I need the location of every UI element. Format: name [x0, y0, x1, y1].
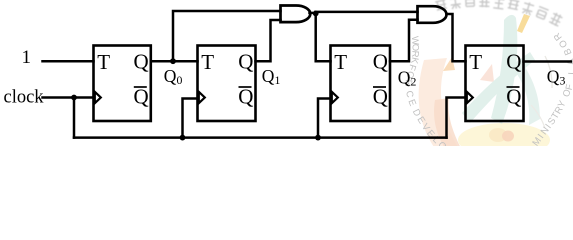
junction: node Q0 [170, 58, 176, 64]
svg-text:T: T [334, 50, 347, 74]
svg-text:L: L [567, 69, 573, 75]
svg-text:Q3: Q3 [547, 67, 566, 88]
svg-text:Q: Q [134, 84, 149, 108]
wire: G1 output down to U3 T input [316, 14, 331, 62]
wire: U1 Q (node Q0) to U2 T input [151, 60, 198, 63]
svg-text:clock: clock [4, 88, 45, 108]
wire: constant 1 to U1 T input [43, 60, 94, 63]
svg-text:Q: Q [238, 49, 253, 73]
wire: G2 output down to U4 T input [447, 14, 466, 61]
U2 clock input triangle [199, 92, 205, 103]
AND gate G2 [418, 6, 447, 23]
wire: G1 output stub [310, 12, 316, 15]
wire: rail riser to U4 clock input [447, 98, 466, 138]
T flip-flop U4 box [466, 46, 524, 122]
svg-text:Q1: Q1 [262, 66, 281, 87]
wire: rail riser to U3 clock input [318, 99, 331, 138]
U4 clock input triangle [467, 92, 473, 103]
AND gate G1 [281, 6, 311, 23]
svg-text:Q0: Q0 [164, 66, 183, 87]
U3 clock input triangle [332, 92, 338, 103]
T flip-flop U3 box [331, 46, 391, 122]
svg-text:E: E [405, 98, 418, 108]
svg-text:T: T [97, 50, 110, 74]
svg-text:Q: Q [238, 84, 253, 108]
svg-text:T: T [201, 50, 214, 74]
svg-text:Q: Q [373, 84, 388, 108]
wire: G1 output to G2 input A [316, 11, 418, 14]
wire: U2 Q (node Q1) to G1 input B [256, 20, 281, 61]
wire: U3 Q (node Q2) to G2 input B [390, 20, 418, 61]
junction: clock node [71, 95, 77, 101]
wire: clock drop to bottom rail [73, 98, 76, 138]
wire: rail riser to U2 clock input [183, 99, 198, 138]
svg-text:T: T [469, 50, 482, 74]
wire: bottom clock rail [74, 136, 447, 139]
svg-text:C: C [403, 90, 415, 99]
svg-text:Q: Q [506, 84, 521, 108]
svg-text:Q: Q [506, 49, 521, 73]
T flip-flop U1 box [94, 46, 151, 122]
svg-text:Q: Q [373, 49, 388, 73]
wire: U4 Q output node Q3 [524, 60, 572, 63]
wire: clock to U1 clock input [43, 96, 94, 99]
junction: G1 output node [313, 11, 319, 17]
watermark seal (decorative) [403, 0, 573, 157]
T flip-flop U2 box [198, 46, 256, 122]
wire: Q0 up and over to G1 input A [173, 11, 281, 61]
junction: rail to U3 clock [315, 135, 321, 141]
svg-text:Q: Q [134, 49, 149, 73]
junction: rail to U2 clock [180, 135, 186, 141]
svg-text:1: 1 [22, 47, 32, 68]
U1 clock input triangle [95, 92, 101, 103]
